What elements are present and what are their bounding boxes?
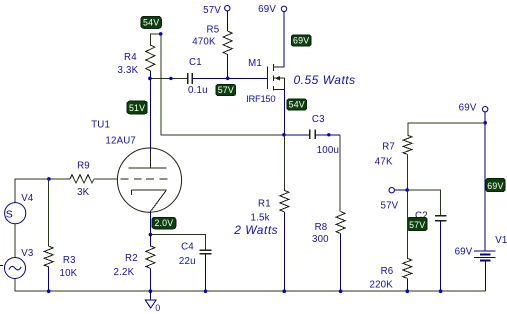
svg-text:57V: 57V	[203, 5, 221, 16]
svg-text:2.0V: 2.0V	[154, 218, 173, 228]
node cathode junction	[149, 233, 153, 237]
resistor R2	[146, 246, 155, 269]
wire	[15, 279, 486, 292]
svg-text:69V: 69V	[258, 4, 276, 15]
resistor R7	[403, 135, 412, 154]
wire	[407, 154, 409, 190]
source V3	[5, 258, 26, 279]
node 54V junction	[282, 133, 286, 137]
node	[405, 188, 409, 192]
svg-text:2.2K: 2.2K	[114, 267, 135, 278]
node	[159, 32, 163, 36]
svg-text:IRF150: IRF150	[246, 93, 275, 104]
resistor R5	[223, 31, 232, 54]
node	[339, 289, 343, 293]
node	[483, 121, 487, 125]
svg-text:0: 0	[155, 303, 160, 313]
resistor R3	[44, 246, 53, 267]
wire	[283, 90, 285, 135]
terminal 57V supply	[225, 6, 230, 11]
ground	[149, 291, 151, 300]
svg-text:57V: 57V	[381, 200, 399, 211]
svg-text:470K: 470K	[192, 37, 216, 48]
svg-text:22u: 22u	[179, 256, 196, 267]
svg-text:C3: C3	[312, 114, 325, 125]
svg-text:R5: R5	[207, 24, 220, 35]
svg-text:0.55 Watts: 0.55 Watts	[294, 73, 356, 87]
node	[47, 289, 51, 293]
wire	[283, 135, 285, 191]
svg-text:220K: 220K	[370, 279, 394, 290]
svg-text:V3: V3	[21, 248, 33, 259]
pin dot	[327, 133, 330, 136]
voltage label 54V	[287, 99, 307, 110]
wire	[192, 77, 267, 79]
svg-text:54V: 54V	[143, 18, 159, 28]
tube TU1 12AU7	[117, 148, 181, 212]
wire	[283, 212, 285, 291]
wire	[48, 179, 50, 246]
svg-text:12AU7: 12AU7	[105, 135, 136, 146]
svg-text:54V: 54V	[289, 100, 305, 110]
terminal 57V right	[389, 188, 394, 193]
svg-text:69V: 69V	[459, 103, 477, 114]
wire	[94, 178, 118, 180]
terminal 69V right	[483, 107, 488, 112]
capacitor C3	[309, 130, 311, 139]
svg-text:V1: V1	[495, 235, 507, 246]
svg-text:1.5k: 1.5k	[251, 212, 270, 223]
svg-text:3.3K: 3.3K	[118, 65, 139, 76]
svg-text:0.1u: 0.1u	[188, 85, 208, 96]
voltage label 51V	[127, 101, 147, 114]
wire	[315, 134, 340, 136]
wire	[485, 260, 487, 291]
wire	[149, 71, 151, 79]
svg-text:R1: R1	[258, 199, 271, 210]
wire	[406, 278, 408, 291]
wire cathode lead	[149, 211, 151, 235]
wire	[150, 34, 161, 45]
svg-text:51V: 51V	[129, 103, 145, 113]
svg-text:300: 300	[312, 234, 329, 245]
wire	[484, 112, 486, 251]
svg-text:C4: C4	[181, 242, 194, 253]
voltage label 69V	[291, 35, 311, 46]
wire	[149, 235, 151, 246]
svg-text:R3: R3	[63, 255, 76, 266]
node	[439, 289, 443, 293]
svg-text:TU1: TU1	[91, 119, 110, 130]
svg-text:2 Watts: 2 Watts	[233, 223, 278, 237]
wire	[149, 268, 151, 291]
capacitor C1	[187, 73, 189, 84]
svg-text:57V: 57V	[409, 220, 425, 230]
resistor R1	[280, 190, 289, 212]
voltage label 57V	[216, 84, 236, 95]
voltage label 54V	[141, 17, 161, 29]
svg-text:R8: R8	[315, 222, 328, 233]
transistor M1	[266, 67, 268, 89]
wire	[205, 254, 207, 291]
svg-text:69V: 69V	[293, 36, 309, 46]
node gate junction	[226, 77, 230, 81]
voltage label 2.0V	[152, 217, 176, 228]
svg-text:R4: R4	[124, 52, 137, 63]
wire	[340, 234, 342, 292]
resistor R6	[403, 258, 412, 278]
svg-text:V4: V4	[21, 193, 34, 204]
wire	[283, 12, 285, 68]
wire	[440, 221, 442, 292]
svg-text:100u: 100u	[317, 145, 339, 156]
node	[47, 177, 51, 181]
svg-text:69V: 69V	[487, 181, 503, 191]
wire	[408, 123, 485, 135]
terminal 69V supply	[281, 6, 286, 11]
resistor R9	[70, 175, 94, 183]
svg-text:S: S	[6, 208, 13, 220]
wire	[14, 224, 16, 258]
capacitor C2	[435, 215, 447, 217]
node	[204, 289, 208, 293]
polarity tick V3	[0, 265, 3, 267]
svg-text:C1: C1	[189, 57, 202, 68]
svg-text:R6: R6	[381, 266, 394, 277]
wire plate lead	[149, 78, 151, 148]
source V4	[5, 203, 26, 224]
wire	[15, 179, 70, 203]
pin dot	[169, 77, 172, 80]
svg-text:10K: 10K	[60, 268, 78, 279]
svg-text:57V: 57V	[218, 85, 234, 95]
wire	[394, 189, 407, 191]
svg-text:69V: 69V	[455, 247, 473, 258]
resistor R8	[336, 212, 345, 234]
wire	[48, 267, 50, 291]
resistor R4	[146, 45, 155, 71]
wire	[284, 134, 310, 136]
wire	[227, 55, 229, 79]
wire	[150, 77, 188, 79]
node	[406, 289, 410, 293]
svg-text:R2: R2	[125, 253, 138, 264]
voltage label 57V	[407, 217, 427, 230]
node	[149, 289, 153, 293]
wire	[339, 135, 341, 212]
svg-text:3K: 3K	[77, 187, 90, 198]
wire	[161, 34, 284, 135]
capacitor C4	[200, 249, 212, 251]
node	[283, 289, 287, 293]
wire	[150, 235, 205, 250]
wire	[406, 190, 408, 258]
svg-text:R7: R7	[382, 141, 395, 152]
svg-text:47K: 47K	[375, 157, 393, 168]
wire	[226, 11, 228, 31]
node plate junction	[148, 77, 152, 81]
svg-text:R9: R9	[77, 160, 90, 171]
voltage label 69V	[486, 178, 505, 191]
wire	[407, 190, 440, 216]
svg-text:M1: M1	[248, 58, 262, 69]
battery V1	[474, 250, 496, 252]
